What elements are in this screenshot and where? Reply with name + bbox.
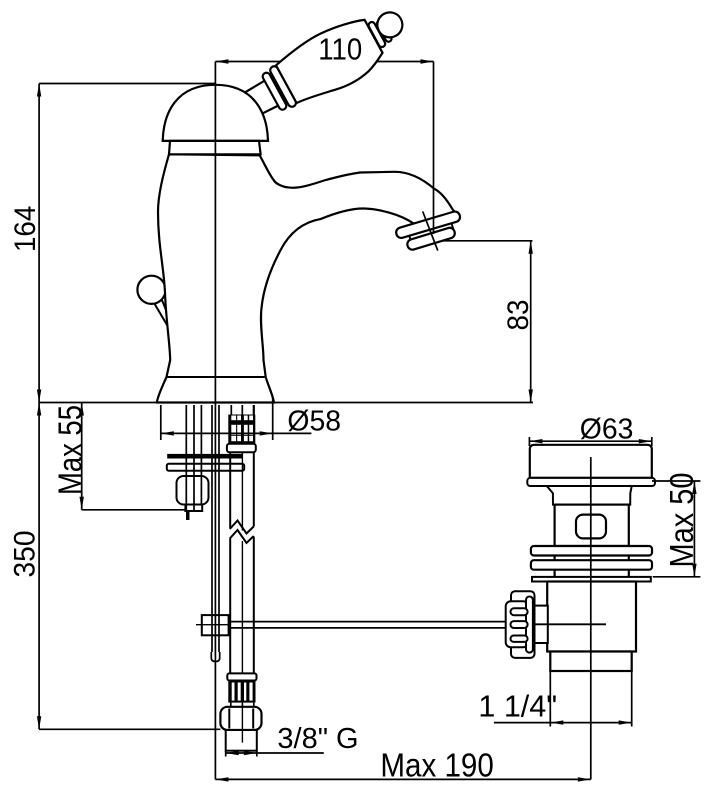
svg-text:110: 110 — [318, 33, 362, 67]
hose break zigzag lower — [230, 530, 254, 543]
hose drop line lower mid — [241, 541, 243, 673]
mounting plane line — [39, 402, 533, 404]
stud stub below nut — [186, 511, 190, 520]
dim line Max55 vertical — [81, 403, 83, 510]
aerator band 2 — [406, 227, 456, 251]
gasket black bar — [167, 454, 243, 459]
arrow 164 bottom — [37, 390, 41, 403]
aerator step between bands — [408, 220, 453, 242]
drain lower body — [547, 582, 636, 652]
hose top line mid — [241, 405, 243, 415]
arrow 3/8 right — [244, 751, 257, 755]
arrow Ø63 right — [639, 439, 652, 443]
knob slot 2 — [511, 621, 528, 628]
faucet neck — [169, 141, 261, 154]
svg-text:350: 350 — [9, 531, 42, 578]
drain centerline — [590, 457, 592, 779]
arrow 110 right — [421, 59, 434, 63]
handle lever — [236, 0, 417, 131]
svg-text:3/8" G: 3/8" G — [277, 723, 358, 755]
rod upper line — [229, 621, 507, 623]
dim line 83 vertical — [530, 241, 532, 403]
ext line top of faucet — [39, 83, 215, 85]
hose nut facet line left — [228, 709, 230, 729]
svg-text:83: 83 — [502, 299, 535, 330]
hose top line right — [253, 405, 255, 415]
lever neck band 2 — [376, 19, 393, 43]
dim line 110 — [215, 61, 433, 63]
lever stem — [243, 80, 280, 118]
dim line 164/350 vertical — [38, 84, 40, 730]
arrow 350 bottom — [37, 716, 41, 729]
pop-up rod tip — [211, 652, 219, 662]
hose nut 3/8 — [220, 707, 261, 730]
arrow 83 bottom — [529, 390, 533, 403]
arrow Ø58 right — [260, 431, 273, 435]
svg-text:Max 55: Max 55 — [52, 405, 89, 495]
nut step — [185, 505, 202, 512]
ext line Max55 bottom — [82, 509, 185, 511]
hose top line left — [230, 405, 232, 415]
Ø58 ext right — [272, 398, 274, 440]
clamp rod line right over block — [218, 615, 220, 635]
drain upper body — [555, 505, 629, 546]
body joint line — [166, 376, 266, 378]
hose tailpiece — [226, 730, 257, 751]
svg-text:1 1/4": 1 1/4" — [478, 690, 557, 724]
aerator band 1 — [395, 210, 461, 239]
supply hose — [220, 405, 261, 757]
clamp nut — [177, 476, 209, 505]
faucet body and spout — [157, 154, 459, 402]
hose drop line upper mid — [241, 452, 243, 530]
hose top braid — [228, 415, 255, 444]
hose stub above nut left — [230, 703, 232, 707]
drain collar taper — [547, 486, 632, 505]
drain flange — [530, 445, 652, 478]
rod lower line — [229, 627, 507, 629]
arrow 110 left — [215, 59, 228, 63]
drain square hole — [576, 515, 606, 539]
hose drop line upper left — [229, 452, 231, 528]
lever collar band 1 — [261, 71, 287, 111]
faucet dome cap — [163, 85, 268, 141]
Max190 dim — [215, 778, 590, 780]
ext line 350 bottom — [39, 728, 220, 730]
drain gasket disc — [527, 478, 655, 486]
hose nut facet line right — [252, 709, 254, 729]
hose drop line lower right — [253, 537, 255, 674]
svg-text:Max 190: Max 190 — [380, 747, 493, 784]
arrow Max190 right — [578, 777, 591, 781]
pop-up knob rod line 1 — [154, 302, 174, 336]
arrow Max55 top — [80, 403, 84, 416]
arrow 83 top — [529, 241, 533, 254]
drain knob right bar — [526, 597, 533, 653]
arrow Max55 bottom — [80, 497, 84, 510]
pop-up drain assembly — [506, 445, 655, 671]
rod clamp block — [202, 615, 229, 635]
pop-up rod vertical left — [211, 405, 213, 655]
hose bottom braid — [228, 681, 255, 703]
arrow 164 top — [37, 84, 41, 97]
drain ring 1 — [531, 546, 652, 556]
hose stub above nut right — [253, 703, 255, 707]
Ø63 dim line — [529, 440, 651, 442]
lever body — [273, 12, 388, 111]
arrow Ø58 left — [161, 431, 174, 435]
drain body side left between ring2-3 — [553, 570, 555, 577]
rod line into drain — [535, 623, 607, 625]
Ø58 ext left — [160, 405, 162, 440]
Max50 dim — [693, 481, 695, 577]
hose stub above nut mid — [241, 703, 243, 707]
lever collar band 2 — [269, 65, 298, 108]
knob slot 1 — [511, 608, 528, 615]
Ø58 dim line — [161, 432, 312, 434]
svg-text:Max 50: Max 50 — [663, 472, 700, 567]
horizontal rod axis stub — [196, 624, 230, 626]
faucet centerline — [214, 62, 216, 780]
under-base hardware — [167, 405, 244, 662]
arrow Ø63 left — [529, 439, 542, 443]
lever neck band 1 — [367, 21, 386, 48]
drain ring 2 — [531, 560, 652, 570]
drain knob connector — [535, 606, 548, 643]
ext line 110 right — [433, 62, 435, 235]
clamp rod line left over block — [211, 615, 213, 635]
hose bottom collar — [227, 673, 256, 680]
knob slot 3 — [511, 636, 528, 642]
ext line aerator diagonal — [423, 212, 438, 251]
pop-up rod vertical right — [218, 405, 220, 655]
arrow 1 1/4 left — [550, 720, 563, 724]
drain ring 3 — [532, 577, 651, 582]
1 1/4 dim — [494, 722, 632, 724]
drain body side left between ring1-2 — [553, 556, 555, 561]
stud line left — [185, 405, 187, 511]
arrow 3/8 left — [226, 751, 239, 755]
arrow Max190 left — [215, 777, 228, 781]
hose drop line upper right — [253, 452, 255, 526]
arrow 1 1/4 right — [619, 720, 632, 724]
stud line right — [193, 405, 195, 511]
ext line 83 top — [436, 240, 533, 242]
svg-text:Ø58: Ø58 — [287, 405, 341, 437]
drain body side right between ring2-3 — [628, 570, 630, 577]
hose centerline in tailpiece — [241, 707, 243, 743]
pop-up knob rod lines — [154, 299, 174, 336]
pop-up knob rod line 2 — [162, 299, 174, 327]
lever ball — [373, 8, 407, 42]
3/8 dim — [226, 752, 324, 754]
pop-up knob ball — [137, 276, 165, 304]
horizontal pop-up rod — [229, 622, 606, 628]
svg-text:164: 164 — [9, 206, 42, 252]
drain thumbscrew knob back plate — [511, 591, 535, 658]
shank line — [200, 405, 202, 504]
drain thumbscrew front plate — [506, 601, 528, 647]
hose break zigzag upper — [230, 521, 254, 534]
hose bottom braid white slots — [232, 683, 253, 701]
drain body side right between ring1-2 — [628, 556, 630, 561]
hose top collar — [227, 444, 256, 453]
hose drop line lower left — [229, 539, 231, 674]
svg-text:Ø63: Ø63 — [580, 413, 634, 445]
arrow 350 top — [37, 403, 41, 416]
arrow Max50 bottom — [692, 564, 696, 577]
drain bottom pipe — [550, 652, 631, 672]
hose top braid white slots — [231, 416, 253, 442]
washer plate — [167, 464, 244, 471]
arrow Max50 top — [692, 481, 696, 494]
